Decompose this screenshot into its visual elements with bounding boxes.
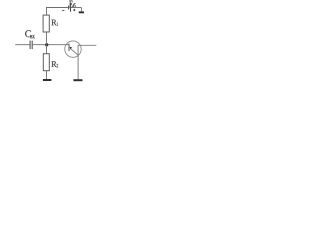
resistor R1 box	[43, 15, 49, 32]
label plus sign	[73, 9, 75, 11]
wire stem down to top ground	[80, 8, 82, 12]
label R1 letter	[51, 20, 56, 26]
label E subscript	[73, 3, 75, 7]
transistor emitter arrow (PNP, pointing to base)	[69, 47, 72, 50]
label C subscript	[30, 35, 34, 38]
wire top rail to battery	[46, 7, 68, 9]
ground bottom-right bar	[73, 79, 82, 81]
wire R1 top to corner	[46, 7, 48, 15]
resistor R2 box	[43, 54, 49, 71]
wire capacitor to base	[33, 44, 69, 46]
capacitor C_in plate left	[29, 41, 31, 50]
wire battery to top ground	[71, 7, 82, 9]
battery E_B short plate (minus)	[68, 6, 70, 10]
label minus sign	[62, 9, 64, 11]
label R2 letter	[51, 61, 56, 67]
ground bottom-left bar	[43, 79, 52, 81]
ground top-right bar	[79, 11, 84, 13]
label R2 subscript	[57, 64, 59, 68]
label C	[25, 30, 31, 37]
label E	[69, 1, 72, 8]
transistor base bar	[68, 44, 70, 52]
wire collector output right	[78, 44, 96, 46]
wire collector stem down through circle to ground	[77, 45, 79, 79]
wire R2 bottom to ground	[46, 71, 48, 79]
wire input left	[15, 44, 29, 46]
transistor VT circle	[65, 41, 81, 57]
wire junction down to R2	[46, 45, 48, 54]
label R1 subscript	[57, 22, 58, 25]
capacitor C_in plate right	[31, 41, 33, 50]
node junction dot	[45, 43, 48, 46]
transistor emitter diagonal	[70, 48, 78, 55]
wire junction up to R1	[46, 32, 48, 45]
battery E_B tall plate (plus)	[70, 3, 72, 12]
